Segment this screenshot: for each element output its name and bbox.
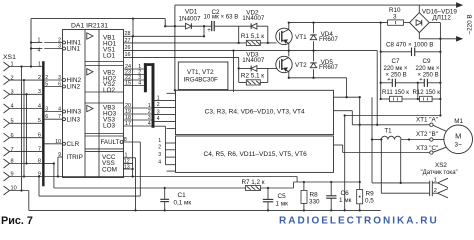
svg-text:R2 5,1 к: R2 5,1 к <box>241 72 264 79</box>
svg-text:LIN1: LIN1 <box>67 46 81 53</box>
svg-text:VT1, VT2: VT1, VT2 <box>187 69 214 76</box>
svg-text:FAULT: FAULT <box>101 139 120 146</box>
svg-text:3: 3 <box>38 89 41 95</box>
svg-text:LIN2: LIN2 <box>67 84 81 91</box>
svg-text:17: 17 <box>125 121 131 127</box>
svg-text:1: 1 <box>434 178 437 184</box>
svg-text:3~: 3~ <box>455 141 463 148</box>
svg-text:XT2 "В": XT2 "В" <box>416 131 438 138</box>
svg-text:XS1: XS1 <box>3 54 16 61</box>
svg-text:VT2: VT2 <box>295 62 307 69</box>
svg-text:ITRIP: ITRIP <box>67 154 83 161</box>
svg-text:DA1 IR2131: DA1 IR2131 <box>71 23 108 30</box>
svg-text:5: 5 <box>38 118 41 124</box>
svg-text:C5: C5 <box>278 193 287 200</box>
svg-text:4: 4 <box>38 48 41 54</box>
svg-text:M: M <box>455 132 461 141</box>
svg-text:R11 150 к: R11 150 к <box>382 89 409 96</box>
svg-text:XT3 "С": XT3 "С" <box>416 145 438 152</box>
svg-text:C3, R3, R4, VD6–VD10, VT3, VT4: C3, R3, R4, VD6–VD10, VT3, VT4 <box>205 109 305 116</box>
svg-text:IRG4BC30F: IRG4BC30F <box>184 77 218 84</box>
svg-text:XS2: XS2 <box>435 162 447 169</box>
svg-text:15: 15 <box>125 80 131 86</box>
svg-text:COM: COM <box>102 167 117 174</box>
svg-text:LO2: LO2 <box>103 87 116 94</box>
svg-text:4: 4 <box>157 116 160 122</box>
svg-text:XT1 "А": XT1 "А" <box>416 117 438 124</box>
svg-text:2: 2 <box>45 75 48 81</box>
svg-text:C9: C9 <box>423 58 432 65</box>
svg-text:T1: T1 <box>384 128 392 135</box>
svg-text:1: 1 <box>158 138 161 144</box>
svg-text:1 мк: 1 мк <box>339 197 352 204</box>
svg-text:1N4007: 1N4007 <box>179 15 202 22</box>
svg-text:1: 1 <box>38 61 41 67</box>
svg-text:1N4007: 1N4007 <box>242 15 265 22</box>
svg-text:6: 6 <box>38 133 41 139</box>
svg-text:FR607: FR607 <box>319 36 338 43</box>
svg-text:5: 5 <box>45 82 48 88</box>
svg-text:10 мк × 63 В: 10 мк × 63 В <box>204 13 239 20</box>
svg-text:R7 1,2 к: R7 1,2 к <box>242 179 265 186</box>
svg-text:LIN3: LIN3 <box>67 116 81 123</box>
svg-text:R1 5,1 к: R1 5,1 к <box>241 33 264 40</box>
svg-text:C1: C1 <box>178 192 187 199</box>
svg-text:+: + <box>207 28 211 34</box>
svg-text:2: 2 <box>157 102 160 108</box>
svg-text:RADIOELECTRONIKA.RU: RADIOELECTRONIKA.RU <box>279 215 439 226</box>
svg-text:4: 4 <box>38 103 41 109</box>
svg-text:CLR: CLR <box>67 141 80 148</box>
svg-text:1 мк: 1 мк <box>276 201 289 208</box>
svg-text:1: 1 <box>157 95 160 101</box>
svg-text:0,1 мк: 0,1 мк <box>174 200 192 207</box>
svg-text:1: 1 <box>38 37 41 43</box>
svg-text:4: 4 <box>158 160 161 166</box>
svg-text:2: 2 <box>38 75 41 81</box>
svg-text:2: 2 <box>158 145 161 151</box>
svg-text:2: 2 <box>434 188 437 194</box>
svg-text:LO3: LO3 <box>103 123 116 130</box>
svg-text:7: 7 <box>38 146 41 152</box>
svg-text:"Датчик тока": "Датчик тока" <box>421 170 458 176</box>
svg-text:C4, R5, R6, VD11–VD15, VT5, VT: C4, R5, R6, VD11–VD15, VT5, VT6 <box>204 151 308 158</box>
svg-text:ДЛ112: ДЛ112 <box>433 14 452 21</box>
svg-text:330: 330 <box>309 199 320 206</box>
svg-text:LO1: LO1 <box>103 53 116 60</box>
svg-text:4: 4 <box>138 81 141 87</box>
svg-text:C7: C7 <box>392 58 401 65</box>
svg-text:3: 3 <box>157 109 160 115</box>
svg-text:VT1: VT1 <box>295 34 307 41</box>
svg-text:~220 В: ~220 В <box>467 14 474 34</box>
svg-text:C8 470 × 1000 В: C8 470 × 1000 В <box>386 41 433 48</box>
svg-text:M1: M1 <box>454 118 463 125</box>
svg-text:R8: R8 <box>310 192 319 199</box>
svg-text:4: 4 <box>148 121 151 127</box>
svg-text:FR607: FR607 <box>319 64 338 71</box>
svg-text:0,5: 0,5 <box>365 198 374 205</box>
svg-text:R9: R9 <box>366 191 375 198</box>
svg-text:6: 6 <box>45 114 48 120</box>
svg-text:Рис. 7: Рис. 7 <box>1 215 33 226</box>
svg-text:3: 3 <box>45 107 48 113</box>
svg-text:8: 8 <box>38 158 41 164</box>
svg-text:3: 3 <box>158 152 161 158</box>
svg-text:1N4007: 1N4007 <box>242 57 265 64</box>
svg-text:R12 150 к: R12 150 к <box>413 89 441 96</box>
svg-text:HIN3: HIN3 <box>67 109 82 116</box>
svg-text:3: 3 <box>393 14 397 21</box>
